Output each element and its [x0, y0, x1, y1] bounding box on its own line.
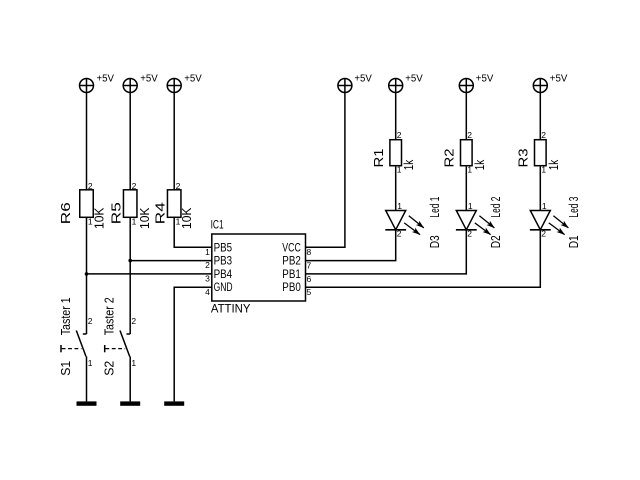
- wire S2 to ground: [129, 357, 131, 402]
- wire +5V to R4: [173, 93, 175, 190]
- junction dot PB3 net: [128, 259, 132, 263]
- wire R4 to IC pin 1: [174, 218, 212, 248]
- switch S2 Taster 2: [102, 297, 137, 376]
- wire VCC pin 8 to +5V: [306, 93, 345, 248]
- svg-text:Taster 1: Taster 1: [58, 297, 73, 335]
- svg-text:2: 2: [397, 229, 402, 239]
- power +5V symbol (R3 net): [533, 79, 547, 93]
- wire IC pin 2 to R5 net: [130, 260, 212, 262]
- wire +5V to R5: [129, 93, 131, 190]
- wire IC pin 4 to ground: [174, 287, 212, 401]
- svg-text:+5V: +5V: [476, 74, 494, 85]
- wire R1 to D3: [395, 167, 397, 211]
- svg-text:Led 3: Led 3: [566, 197, 581, 218]
- svg-text:PB5: PB5: [214, 242, 233, 254]
- wire IC pin 3 to R6 net: [87, 273, 212, 275]
- svg-text:1: 1: [205, 247, 210, 257]
- svg-text:2: 2: [88, 181, 93, 191]
- junction dot PB4 net: [85, 272, 89, 276]
- wire +5V to R2: [465, 93, 467, 141]
- svg-text:2: 2: [205, 260, 210, 270]
- svg-text:R4: R4: [152, 202, 167, 224]
- power +5V symbol (R6 net): [80, 79, 94, 93]
- IC U1 ATTINY: [205, 219, 311, 315]
- svg-text:1k: 1k: [401, 159, 416, 170]
- wire +5V to R3: [539, 93, 541, 141]
- resistor R5 10K: [108, 181, 151, 229]
- svg-text:Led 1: Led 1: [427, 197, 442, 218]
- svg-text:+5V: +5V: [405, 74, 423, 85]
- svg-text:2: 2: [397, 130, 402, 140]
- svg-text:PB4: PB4: [214, 269, 233, 281]
- svg-text:1: 1: [468, 201, 473, 211]
- wire R6 to S1: [86, 218, 88, 335]
- power +5V symbol (VCC net): [338, 79, 352, 93]
- svg-text:D2: D2: [488, 235, 503, 248]
- LED D3 Led 1: [385, 197, 442, 249]
- svg-text:R6: R6: [58, 202, 73, 224]
- resistor R1 1k: [371, 130, 416, 175]
- wire R3 to D1: [539, 167, 541, 211]
- svg-text:S1: S1: [58, 361, 73, 376]
- power +5V symbol (R1 net): [389, 79, 403, 93]
- svg-text:+5V: +5V: [354, 74, 372, 85]
- svg-text:4: 4: [205, 287, 210, 297]
- svg-text:D3: D3: [427, 235, 442, 248]
- svg-text:R1: R1: [371, 149, 386, 168]
- wire D2 to IC pin 6: [306, 230, 467, 274]
- ground symbol (S2): [120, 401, 140, 405]
- svg-text:R3: R3: [516, 149, 531, 168]
- wire D1 to IC pin 5: [306, 230, 541, 287]
- resistor R6 10K: [58, 181, 106, 229]
- svg-text:S2: S2: [102, 361, 117, 376]
- svg-text:ATTINY: ATTINY: [211, 303, 251, 315]
- svg-text:PB0: PB0: [282, 282, 301, 294]
- svg-text:1: 1: [397, 201, 402, 211]
- wire +5V to R1: [395, 93, 397, 141]
- svg-text:+5V: +5V: [550, 74, 568, 85]
- wire +5V to R6: [86, 93, 88, 190]
- svg-text:5: 5: [307, 287, 312, 297]
- switch S1 Taster 1: [58, 297, 93, 376]
- svg-text:2: 2: [467, 229, 472, 239]
- svg-text:+5V: +5V: [97, 74, 115, 85]
- svg-text:VCC: VCC: [282, 242, 301, 254]
- svg-text:IC1: IC1: [211, 219, 224, 231]
- resistor R3 1k: [516, 130, 561, 175]
- LED D2 Led 2: [456, 197, 503, 249]
- svg-text:1: 1: [88, 358, 93, 368]
- svg-text:1: 1: [131, 358, 136, 368]
- svg-text:GND: GND: [214, 282, 233, 294]
- svg-text:2: 2: [132, 181, 137, 191]
- svg-text:1: 1: [132, 216, 137, 226]
- svg-text:10K: 10K: [92, 207, 107, 229]
- svg-text:8: 8: [307, 247, 312, 257]
- svg-text:R5: R5: [108, 202, 123, 224]
- ground symbol (IC GND): [164, 401, 184, 405]
- wire D3 to IC pin 7: [306, 230, 396, 261]
- wire S1 to ground: [86, 357, 88, 402]
- svg-text:10K: 10K: [179, 207, 194, 229]
- svg-text:PB1: PB1: [282, 269, 301, 281]
- svg-text:1k: 1k: [546, 159, 561, 170]
- wire R5 to S2: [129, 218, 131, 335]
- svg-text:6: 6: [307, 274, 312, 284]
- svg-text:2: 2: [131, 316, 136, 326]
- svg-text:3: 3: [205, 274, 210, 284]
- svg-text:10K: 10K: [137, 207, 152, 229]
- svg-text:R2: R2: [442, 149, 457, 168]
- svg-text:Led 2: Led 2: [488, 197, 503, 218]
- svg-text:+5V: +5V: [140, 74, 158, 85]
- svg-text:2: 2: [88, 316, 93, 326]
- svg-text:Taster 2: Taster 2: [102, 297, 117, 335]
- svg-text:PB2: PB2: [282, 256, 301, 268]
- svg-text:PB3: PB3: [214, 256, 233, 268]
- resistor R4 10K: [152, 181, 194, 229]
- power +5V symbol (R2 net): [459, 79, 473, 93]
- svg-text:2: 2: [176, 181, 181, 191]
- svg-text:+5V: +5V: [184, 74, 202, 85]
- svg-text:1k: 1k: [472, 159, 487, 170]
- svg-text:2: 2: [467, 130, 472, 140]
- resistor R2 1k: [442, 130, 487, 175]
- svg-text:1: 1: [542, 201, 547, 211]
- svg-text:2: 2: [541, 229, 546, 239]
- wire R2 to D2: [465, 167, 467, 211]
- power +5V symbol (R4 net): [167, 79, 181, 93]
- svg-text:2: 2: [541, 130, 546, 140]
- ground symbol (S1): [77, 401, 97, 405]
- LED D1 Led 3: [530, 197, 581, 249]
- svg-text:7: 7: [307, 261, 312, 271]
- power +5V symbol (R5 net): [123, 79, 137, 93]
- svg-text:D1: D1: [566, 235, 581, 248]
